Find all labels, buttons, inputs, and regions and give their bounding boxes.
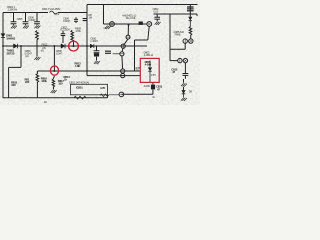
resistor R808	[36, 31, 39, 47]
diode D804	[90, 44, 93, 48]
wire H2 top-right bus	[87, 4, 198, 6]
wire H6	[37, 70, 140, 72]
svg-text:0.0047: 0.0047	[28, 18, 36, 22]
svg-text:7D: 7D	[136, 69, 139, 73]
diode D801	[2, 33, 4, 40]
svg-text:1N4003: 1N4003	[6, 36, 15, 40]
svg-text:100: 100	[58, 82, 63, 86]
ground	[105, 26, 111, 29]
wire V x=54.4	[53, 46, 55, 71]
inductor L806	[187, 6, 194, 7]
thermistor block	[139, 22, 143, 25]
diode D805 inside red box	[148, 61, 152, 83]
svg-text:(A) 2: (A) 2	[54, 12, 60, 16]
svg-text:(A): (A)	[25, 54, 28, 58]
resistor R818 on bus	[74, 96, 86, 99]
junction node x87 / H5	[86, 45, 88, 47]
svg-text:(A): (A)	[41, 49, 44, 53]
svg-text:C805: C805	[17, 17, 23, 21]
svg-text:R812: R812	[42, 42, 48, 46]
svg-text:0.0047: 0.0047	[63, 19, 71, 23]
degauss vertical	[103, 5, 105, 25]
diode D806	[189, 17, 192, 20]
capacitor C807a	[34, 13, 40, 25]
ground	[34, 57, 40, 60]
ground	[155, 22, 161, 25]
svg-text:1 BY: 1 BY	[151, 73, 156, 77]
connector P802	[147, 22, 152, 27]
svg-text:0.1 250V: 0.1 250V	[60, 28, 70, 32]
wire V x=21 step	[9, 46, 21, 98]
svg-text:(A): (A)	[104, 26, 107, 30]
svg-text:1 400V: 1 400V	[90, 39, 98, 43]
diode D803	[61, 44, 65, 48]
wire V from P802	[148, 27, 149, 41]
junction node A (circled)	[72, 45, 74, 47]
capacitor stub bars	[113, 53, 120, 55]
svg-text:IC801: IC801	[76, 86, 83, 90]
wire to C813	[124, 93, 153, 95]
resistor R819	[100, 94, 119, 97]
junction node x54 / H5	[53, 45, 55, 47]
junction node x21 / H5	[20, 45, 22, 47]
connector	[120, 52, 124, 56]
svg-text:F801 T1.6A 250V: F801 T1.6A 250V	[42, 7, 61, 11]
capacitor C805	[11, 13, 17, 25]
connector circle with arrow	[119, 92, 124, 97]
resistor R816 to ground	[52, 76, 54, 90]
capacitor C803	[154, 14, 160, 21]
wire H3 sub bus	[154, 14, 198, 16]
wire H4 degauss	[104, 23, 148, 25]
capacitor C806	[23, 13, 29, 25]
wire V x=170	[170, 14, 178, 61]
connector	[121, 69, 125, 73]
wire V left bus	[2, 13, 4, 98]
svg-text:0.01: 0.01	[153, 10, 158, 14]
capacitor C807	[61, 31, 66, 43]
svg-text:100k: 100k	[41, 79, 47, 83]
wire H5 mid bus	[3, 45, 147, 47]
svg-text:SDT25: SDT25	[7, 52, 15, 56]
svg-text:C815 .047 400V(A): C815 .047 400V(A)	[69, 80, 89, 84]
capacitor C813	[152, 83, 154, 85]
IC801 box	[71, 84, 108, 95]
svg-text:4-099: 4-099	[145, 63, 152, 67]
resistor R809	[71, 30, 74, 46]
junction node B (circled)	[53, 70, 55, 72]
connector P801	[110, 22, 115, 27]
connector on H5	[121, 44, 125, 48]
text labels	[6, 5, 192, 104]
svg-text:470k: 470k	[76, 29, 82, 33]
capacitor C804	[83, 18, 87, 19]
fuse F801	[50, 11, 58, 14]
svg-text:4-099: 4-099	[144, 84, 151, 88]
svg-text:PWB: PWB	[175, 32, 181, 36]
wire H1 top-left bus	[3, 12, 48, 14]
ground	[34, 25, 40, 28]
wire V x=87	[86, 5, 88, 76]
svg-text:1.8K: 1.8K	[75, 64, 80, 68]
wire H y40	[135, 39, 148, 41]
red rectangle highlight	[140, 58, 159, 82]
svg-text:4-099-11: 4-099-11	[144, 53, 154, 57]
junction node left bus / H5	[2, 45, 4, 47]
slanted vertical with connectors	[122, 24, 129, 73]
ground	[51, 90, 57, 93]
wire V x=134.5	[134, 40, 136, 71]
svg-text:220: 220	[11, 83, 16, 87]
svg-text:2.2M 5%: 2.2M 5%	[8, 8, 18, 12]
red circle highlight 1	[69, 41, 79, 51]
resistor R815 vertical	[36, 71, 39, 98]
diode D802	[14, 44, 18, 48]
capacitor C806b mid	[74, 17, 78, 23]
connector pair upper	[183, 39, 187, 43]
wire H7	[87, 75, 140, 77]
right-bottom diode chain	[183, 79, 185, 83]
ground	[11, 25, 17, 28]
red circle highlight 2	[50, 66, 58, 75]
svg-text:0.047: 0.047	[56, 51, 63, 55]
junction node x96 / H5	[96, 45, 98, 47]
wire L from connector	[170, 43, 185, 49]
wire stub to ground	[36, 46, 38, 56]
svg-text:DG COIL: DG COIL	[126, 16, 136, 20]
connector	[126, 35, 130, 39]
connector pair lower	[178, 58, 182, 62]
junction node x87 / H6	[86, 70, 88, 72]
connector	[121, 74, 125, 78]
svg-text:4.7K: 4.7K	[100, 86, 105, 90]
ground	[23, 25, 29, 28]
resistor R810	[189, 26, 192, 39]
capacitor C810 electrolytic	[94, 46, 100, 53]
ground	[94, 61, 100, 64]
junction node x37 / H5	[36, 45, 38, 47]
svg-text:220: 220	[25, 80, 30, 84]
wire H8 bottom bus	[3, 97, 108, 99]
capacitor C812	[183, 63, 189, 79]
